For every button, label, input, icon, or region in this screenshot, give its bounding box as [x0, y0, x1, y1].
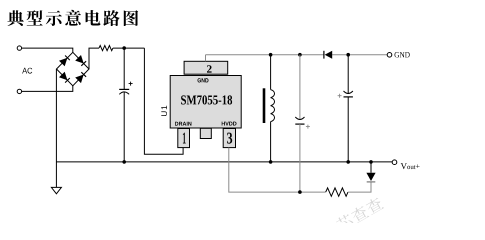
- bridge diode D2: [75, 55, 86, 66]
- junction L1/gnd: [269, 53, 273, 57]
- wire pin3 hvdd net: [229, 148, 326, 193]
- label AC: [22, 68, 32, 74]
- junction C3/gnd: [346, 53, 350, 57]
- IC U1 SM7055-18: [161, 61, 241, 147]
- junction C1/rail: [122, 160, 126, 164]
- wire rail resistor to corner: [113, 47, 144, 49]
- title 典型示意电路图: [7, 10, 138, 26]
- wire D6 to rail: [370, 162, 372, 173]
- junction C2/gnd: [298, 53, 302, 57]
- diode D6: [366, 173, 375, 182]
- pin 2 number: [207, 65, 212, 72]
- bridge rectifier diamond: [57, 52, 90, 86]
- watermark 芯查查: [335, 196, 384, 233]
- pin 2 tab: [184, 61, 228, 74]
- junction rail/C1: [122, 46, 126, 50]
- terminal AC line1: [17, 46, 21, 50]
- pin mid box: [200, 128, 211, 138]
- resistor R1: [99, 46, 113, 51]
- bridge diode D4: [75, 72, 86, 83]
- IC body: [170, 76, 241, 129]
- diode D5: [324, 51, 332, 59]
- wire bridge right to rail: [89, 48, 99, 69]
- pin 1 box: [178, 129, 190, 148]
- junction C2/hvdd: [298, 190, 302, 194]
- pin 3 box: [223, 129, 235, 148]
- junction C3/rail: [346, 160, 350, 164]
- inductor L1: [264, 55, 275, 162]
- wire drain net: [144, 48, 183, 154]
- wire AC line1 to bridge top: [22, 48, 73, 52]
- label GND: [395, 52, 410, 58]
- main rail bridge- to vout: [56, 161, 392, 163]
- junction L1/rail: [269, 160, 273, 164]
- terminal GND: [387, 53, 392, 58]
- capacitor C1: [119, 48, 132, 162]
- ground symbol: [51, 187, 61, 193]
- pin 3 number: [227, 133, 232, 144]
- gnd net line: [206, 54, 388, 56]
- label DRAIN: [175, 122, 191, 126]
- label U1: [161, 106, 167, 116]
- terminal Vout+: [392, 160, 397, 165]
- junction D6/rail: [369, 160, 373, 164]
- label GND pin2: [198, 78, 209, 82]
- bridge diode D1: [59, 56, 70, 67]
- label HVDD: [222, 122, 237, 126]
- label Vout+: [401, 163, 407, 169]
- terminal AC line2: [17, 89, 21, 93]
- capacitor C2: [295, 55, 310, 192]
- pin 1 number: [183, 133, 186, 144]
- wire AC line2 to bridge bottom: [22, 86, 73, 92]
- bridge diode D3: [59, 72, 70, 83]
- capacitor C3: [338, 55, 353, 162]
- wire bridge left to ground: [55, 69, 57, 187]
- label SM7055-18: [181, 95, 232, 104]
- wire R2 to D6: [348, 182, 371, 192]
- wire pin2 riser: [205, 55, 207, 62]
- resistor R2: [326, 188, 348, 196]
